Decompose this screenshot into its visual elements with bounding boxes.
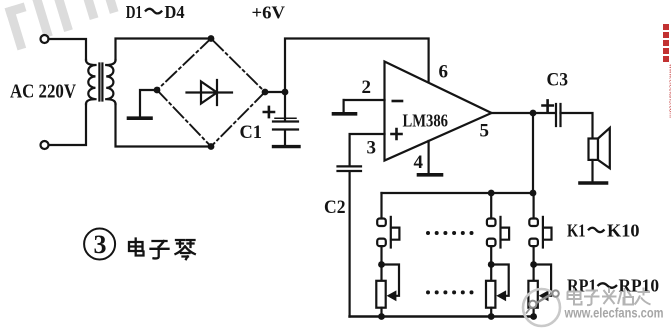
terminal J1: [41, 35, 49, 43]
wire speaker to ground: [591, 160, 593, 181]
svg-text:6: 6: [439, 61, 449, 82]
svg-text:3: 3: [94, 230, 107, 259]
ellipsis dots pot row: [426, 290, 474, 294]
RP1 wiper arrow: [387, 290, 397, 301]
svg-text:+6V: +6V: [252, 3, 286, 23]
capacitor C2: [338, 166, 362, 316]
pin 4 wire: [428, 141, 430, 173]
+6V rail wire to pin 6: [285, 39, 429, 93]
capacitor C3: [556, 104, 561, 126]
wire secondary bottom to bridge bottom node: [116, 104, 212, 147]
ground at bridge left: [140, 90, 157, 117]
svg-text:C1: C1: [240, 122, 263, 143]
junction node bridge right: [262, 89, 269, 96]
junction node output: [530, 110, 537, 117]
wire RP1 to bottom rail: [380, 308, 382, 317]
svg-text:D1: D1: [126, 2, 143, 22]
transformer T1 primary winding: [86, 60, 96, 104]
svg-text:5: 5: [480, 120, 490, 141]
terminal J2: [41, 141, 49, 149]
key switch column 3: K10 and RP10: [528, 193, 551, 320]
svg-text:RP1: RP1: [567, 276, 597, 296]
wire J1 to transformer primary top: [49, 39, 87, 60]
key top rail: [382, 192, 534, 194]
wire rail to K1: [380, 193, 382, 219]
pin 2 wire: [344, 99, 385, 101]
junction node rail col3: [530, 190, 537, 197]
pin 3 wire: [350, 134, 385, 166]
wire C3 to speaker: [561, 113, 593, 139]
U1 minus input mark: [393, 100, 402, 103]
watermark right edge red text: [663, 24, 671, 118]
junction node bridge left: [154, 87, 161, 94]
key switch column 1: K1 and RP1: [376, 193, 399, 320]
svg-text:4: 4: [414, 152, 424, 173]
bottom common rail: [350, 315, 534, 318]
svg-text:K10: K10: [607, 221, 640, 241]
caption 电子琴 (drawn strokes): [129, 239, 195, 260]
svg-text:C2: C2: [324, 197, 346, 218]
node bottom rail: [378, 313, 385, 320]
bridge rectifier D1-D4 diamond (dash-dot edges): [157, 39, 265, 147]
C1 plus sign: [264, 107, 274, 117]
ground at speaker: [580, 181, 607, 185]
junction node bridge bottom: [208, 143, 215, 150]
svg-text:3: 3: [367, 138, 377, 159]
switch K1 contact pads: [377, 219, 386, 227]
watermark 电子发烧友 outline glyphs: [568, 288, 651, 306]
pin 5 output wire: [492, 112, 555, 114]
diode symbol inside bridge: [187, 80, 233, 105]
transformer T1 core: [99, 64, 102, 101]
svg-text:2: 2: [362, 77, 372, 98]
ground at pin 4: [419, 173, 442, 177]
svg-text:D4: D4: [165, 2, 185, 22]
potentiometer RP1 body: [376, 281, 385, 308]
junction node bridge top: [208, 35, 215, 42]
switch K1 actuator: [390, 217, 392, 248]
key switch column 2: K2/RP2: [486, 193, 509, 320]
op-amp U1 LM386 triangle: [385, 62, 492, 161]
wire secondary top to bridge top node: [116, 39, 212, 61]
svg-text:www.elecfans.com: www.elecfans.com: [668, 63, 671, 118]
wire K1 to RP1: [380, 246, 382, 264]
ellipsis dots switch row: [426, 231, 474, 235]
transformer T1 secondary winding: [106, 60, 115, 104]
speaker LS: [589, 139, 599, 160]
svg-text:C3: C3: [547, 70, 569, 91]
wire bridge right to C1 node: [265, 91, 285, 93]
wire output node down to key rail: [532, 113, 534, 193]
watermark top-left gray letters: [2, 0, 131, 50]
ground at pin 2: [343, 100, 345, 112]
svg-text:LM386: LM386: [403, 111, 449, 131]
U1 plus input mark: [392, 129, 402, 139]
C3 plus sign: [543, 100, 553, 110]
wire J2 to transformer primary bottom: [49, 104, 87, 145]
svg-text:K1: K1: [567, 221, 586, 241]
capacitor C1: [273, 92, 298, 145]
junction node rail col2: [488, 190, 495, 197]
wire RP1 wiper link: [382, 265, 400, 296]
junction node C1/+6V: [282, 89, 289, 96]
watermark logo circle bottom right: [523, 289, 560, 326]
svg-text:AC 220V: AC 220V: [10, 81, 76, 103]
svg-text:www.elecfans.com: www.elecfans.com: [564, 306, 664, 321]
figure number circled 3: [84, 229, 115, 260]
node K1/RP1: [378, 261, 385, 268]
